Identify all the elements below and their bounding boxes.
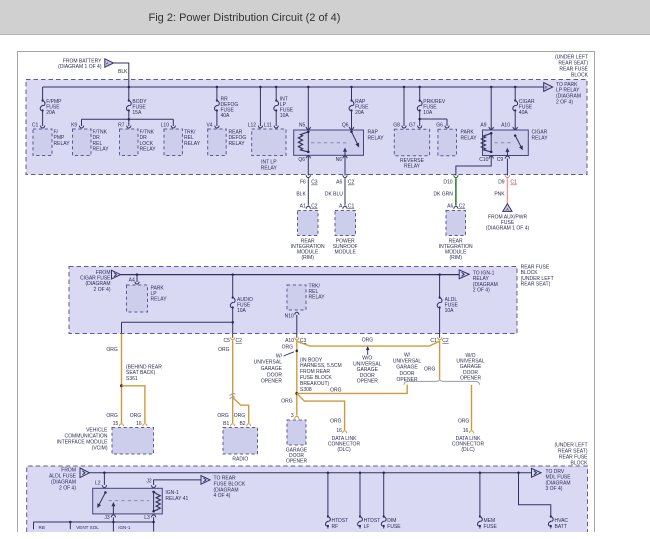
relay TRK/REL xyxy=(164,129,201,156)
svg-text:BLOCK: BLOCK xyxy=(571,72,589,78)
svg-text:(DLC): (DLC) xyxy=(337,447,351,453)
option ticks radio wire xyxy=(230,394,236,399)
svg-text:G8: G8 xyxy=(393,122,400,128)
splice S361 xyxy=(120,364,162,387)
svg-text:ORG: ORG xyxy=(362,337,374,343)
svg-text:(RIM): (RIM) xyxy=(449,255,462,261)
svg-text:(DLC): (DLC) xyxy=(461,447,475,453)
svg-text:RELAY: RELAY xyxy=(261,165,278,171)
svg-text:G7: G7 xyxy=(409,122,416,128)
pin C1 xyxy=(32,122,45,128)
svg-text:15: 15 xyxy=(113,421,119,427)
svg-text:10A: 10A xyxy=(237,308,247,314)
arrow to park lp relay xyxy=(544,82,581,105)
svg-text:OPENER: OPENER xyxy=(460,375,482,381)
svg-text:C2: C2 xyxy=(236,338,243,344)
svg-text:C5: C5 xyxy=(223,338,230,344)
wire sub-bus body fuse xyxy=(82,118,174,126)
pin V4 xyxy=(206,122,219,128)
from battery source arrow A xyxy=(58,58,113,70)
pins B1 B2 radio xyxy=(217,413,250,427)
svg-text:S308: S308 xyxy=(300,387,312,393)
bus band2 xyxy=(121,273,460,276)
wire PNK to aux/pwr fuse xyxy=(494,178,507,204)
svg-text:C9: C9 xyxy=(497,157,504,163)
svg-text:Q6: Q6 xyxy=(298,157,305,163)
svg-text:2 OF 4): 2 OF 4) xyxy=(556,99,573,105)
rear fuse block band 3 xyxy=(27,466,588,532)
svg-text:N5: N5 xyxy=(299,122,306,128)
svg-text:REAR SEAT): REAR SEAT) xyxy=(521,282,551,288)
svg-text:OPENER: OPENER xyxy=(396,377,418,383)
connector DATA LINK CONNECTOR DLC 1 xyxy=(328,436,361,453)
fuse DIM xyxy=(381,473,401,530)
fuse CIGAR 40A xyxy=(513,87,535,130)
wire int lp drop L12 xyxy=(259,87,261,126)
bus band1 main feed xyxy=(43,86,544,101)
label w/ universal garage door opener left with leader xyxy=(254,350,298,385)
svg-text:16: 16 xyxy=(463,428,469,434)
svg-text:(DIAGRAM 1 OF 4): (DIAGRAM 1 OF 4) xyxy=(486,225,530,231)
relay RAP switch xyxy=(311,131,359,147)
relay PARK LP xyxy=(127,285,168,312)
svg-text:OPENER: OPENER xyxy=(261,379,283,385)
wire ORG S361 to VCIM 16 xyxy=(122,386,145,423)
title bar xyxy=(0,0,650,35)
node C5 C2 xyxy=(223,337,242,344)
arrow from cigar fuse xyxy=(80,270,121,293)
svg-text:10A: 10A xyxy=(280,113,290,119)
svg-text:C1: C1 xyxy=(32,122,39,128)
svg-text:RELAY: RELAY xyxy=(404,164,421,170)
svg-text:40A: 40A xyxy=(519,110,529,116)
wire rap coil drop N5 xyxy=(307,87,309,130)
relay F/TNK DR REL xyxy=(73,129,110,156)
wire ORG S308 to garage door opener xyxy=(281,399,293,405)
wire ORG C5 to radio xyxy=(218,340,233,423)
pin L3 xyxy=(144,515,156,532)
svg-text:A6: A6 xyxy=(336,180,342,186)
svg-text:A10: A10 xyxy=(285,338,294,344)
svg-text:R7: R7 xyxy=(118,122,125,128)
relay REVERSE xyxy=(394,129,429,169)
fuse F/PMP 20A xyxy=(40,99,62,126)
svg-text:G6: G6 xyxy=(436,122,443,128)
pin K9 xyxy=(71,122,84,128)
svg-text:16: 16 xyxy=(336,428,342,434)
svg-text:DOOR: DOOR xyxy=(267,372,282,378)
fuse HTDST RF xyxy=(326,473,349,530)
svg-text:C2: C2 xyxy=(459,204,466,210)
svg-text:A9: A9 xyxy=(480,122,486,128)
node A10 C3 xyxy=(285,337,306,344)
svg-text:10A: 10A xyxy=(423,110,433,116)
fuse BODY 15A xyxy=(126,99,147,119)
pin N6 bottom xyxy=(336,149,348,164)
pin Q6 bottom xyxy=(298,156,310,163)
svg-text:S361: S361 xyxy=(126,376,138,382)
svg-text:A6: A6 xyxy=(447,204,453,210)
rear fuse block band 1 (under left rear seat) xyxy=(26,80,587,175)
svg-text:ORG: ORG xyxy=(234,413,246,419)
svg-text:(RIM): (RIM) xyxy=(301,255,314,261)
svg-text:IGN-1: IGN-1 xyxy=(118,525,131,530)
wire cigar coil drop A9 xyxy=(490,87,492,130)
svg-text:FUSE: FUSE xyxy=(387,524,401,530)
svg-text:C3: C3 xyxy=(311,180,318,186)
svg-text:Fig 2: Power Distribution Circ: Fig 2: Power Distribution Circuit (2 of … xyxy=(149,12,341,24)
label w/o universal garage door opener mid xyxy=(353,347,382,384)
svg-text:2 OF 4): 2 OF 4) xyxy=(473,288,490,294)
fuse PRK/REV 10A xyxy=(417,87,446,126)
arrow from aldl fuse xyxy=(49,467,89,491)
fuse RAP 20A xyxy=(349,87,369,130)
svg-text:C2: C2 xyxy=(348,180,355,186)
svg-text:ORG: ORG xyxy=(330,388,342,394)
svg-text:N10: N10 xyxy=(285,313,294,319)
module GARAGE DOOR OPENER xyxy=(286,420,308,465)
svg-text:N6: N6 xyxy=(336,157,343,163)
svg-text:40A: 40A xyxy=(221,113,231,119)
svg-text:FUSE: FUSE xyxy=(484,524,498,530)
svg-text:L11: L11 xyxy=(264,122,272,128)
svg-text:B: B xyxy=(545,86,548,90)
pin 16 DLC 2 xyxy=(463,428,474,434)
relay CIGAR switch xyxy=(495,134,523,149)
pin 16 DLC 1 xyxy=(330,418,347,434)
svg-text:J3: J3 xyxy=(104,515,110,521)
fuse MEM xyxy=(478,473,498,530)
pins 15 16 VCIM xyxy=(106,413,147,427)
node D9 C1 xyxy=(498,175,517,185)
svg-text:RELAY: RELAY xyxy=(368,135,385,141)
wire park relay branch xyxy=(418,118,447,126)
svg-text:10A: 10A xyxy=(445,308,455,314)
pin G8 xyxy=(393,122,406,128)
svg-text:(DIAGRAM 1 OF 4): (DIAGRAM 1 OF 4) xyxy=(58,64,102,70)
label rear fuse block right of band2 xyxy=(521,264,554,287)
wire ORG C1 to brace xyxy=(424,340,440,379)
svg-text:C1: C1 xyxy=(510,180,517,186)
svg-text:ORG: ORG xyxy=(458,418,470,424)
wire DK GRN to RIM xyxy=(433,178,465,209)
module RADIO xyxy=(223,428,258,463)
wire reverse relay drop G8 xyxy=(403,87,405,126)
svg-text:BLK: BLK xyxy=(296,192,306,198)
relay CIGAR U-box xyxy=(483,130,549,156)
svg-text:D9: D9 xyxy=(498,180,505,186)
svg-text:LF: LF xyxy=(364,524,370,530)
svg-text:C10: C10 xyxy=(479,157,488,163)
pin L12 xyxy=(248,122,263,128)
svg-text:L3: L3 xyxy=(144,515,150,521)
fuse INT LP 10A xyxy=(274,87,294,126)
splice S308 xyxy=(295,357,341,395)
svg-text:RB: RB xyxy=(39,525,45,530)
fuse HVAC BATT xyxy=(519,473,569,530)
module REAR INTEGRATION MODULE RIM 2 xyxy=(439,211,473,262)
svg-text:RELAY: RELAY xyxy=(229,141,246,147)
pin 3 garage door opener xyxy=(291,413,299,419)
svg-text:2 OF 4): 2 OF 4) xyxy=(94,287,111,293)
bottom rail vent sol / ign-1 xyxy=(34,521,155,530)
svg-text:K9: K9 xyxy=(71,122,77,128)
svg-text:20A: 20A xyxy=(355,110,365,116)
label rear fuse block top right xyxy=(555,54,589,78)
svg-text:OPENER: OPENER xyxy=(357,379,379,385)
pin A10 xyxy=(501,122,517,129)
module REAR INTEGRATION MODULE RIM 1 xyxy=(291,211,325,262)
wire cigar relay C10 to D10 xyxy=(456,156,491,176)
svg-text:A10: A10 xyxy=(501,122,510,128)
diagram frame xyxy=(18,52,595,533)
svg-text:ORG: ORG xyxy=(106,347,118,353)
svg-text:ORG: ORG xyxy=(218,347,230,353)
svg-text:L2: L2 xyxy=(95,480,101,486)
relay RAP coil xyxy=(298,131,309,154)
label w/o universal garage door opener right xyxy=(456,353,485,382)
pin G6 xyxy=(436,122,449,128)
label rear fuse block above band3 xyxy=(554,443,588,467)
svg-text:J2: J2 xyxy=(146,478,152,484)
svg-text:2 OF 4): 2 OF 4) xyxy=(59,486,76,492)
connector DATA LINK CONNECTOR DLC 2 xyxy=(452,436,485,453)
svg-text:W/: W/ xyxy=(404,353,411,359)
svg-text:RELAY: RELAY xyxy=(140,146,157,152)
svg-text:PNK: PNK xyxy=(494,192,505,198)
fuse HTDST LF xyxy=(358,473,381,530)
pin R7 xyxy=(118,122,131,128)
relay INT LP xyxy=(252,129,286,171)
svg-text:ORG: ORG xyxy=(282,344,294,350)
svg-text:ORG: ORG xyxy=(330,418,342,424)
svg-text:BATT: BATT xyxy=(555,524,567,530)
svg-text:(DIAGRAM: (DIAGRAM xyxy=(51,480,76,486)
svg-text:UNIVERSAL: UNIVERSAL xyxy=(254,360,283,366)
pin L10 xyxy=(161,122,176,128)
pin N10 xyxy=(285,312,299,338)
relay F/TNK DR LOCK xyxy=(120,129,157,156)
pin A4 xyxy=(129,275,140,284)
module VCIM xyxy=(57,427,154,454)
svg-text:RELAY: RELAY xyxy=(461,135,478,141)
bus band3 xyxy=(89,472,532,475)
pin Q6 top xyxy=(342,122,354,129)
relay IGN-1 switch xyxy=(98,491,149,507)
wire RIM feed BLK xyxy=(296,155,317,209)
relay TRK/REL band2 xyxy=(287,284,325,311)
wire cigar relay C9 to D9 xyxy=(506,159,508,176)
relay CIGAR coil xyxy=(481,132,492,153)
svg-text:C1: C1 xyxy=(348,204,355,210)
arrow to ign-1 relay xyxy=(459,270,498,294)
svg-text:ORG: ORG xyxy=(424,366,436,372)
svg-text:B1: B1 xyxy=(223,421,229,427)
svg-text:A1: A1 xyxy=(300,204,306,210)
arrow to rear fuse block xyxy=(201,476,246,500)
svg-text:MODULE: MODULE xyxy=(334,250,356,256)
pin J3 xyxy=(104,515,115,532)
arrow from aux/pwr fuse A xyxy=(486,204,530,232)
relay IGN-1 coil xyxy=(152,491,160,513)
svg-text:DOOR: DOOR xyxy=(400,371,415,377)
svg-text:OPENER: OPENER xyxy=(286,459,308,465)
svg-text:RELAY: RELAY xyxy=(54,141,71,147)
pin C10 xyxy=(479,156,493,163)
svg-text:VENT SOL: VENT SOL xyxy=(76,525,99,530)
svg-text:RELAY: RELAY xyxy=(93,146,110,152)
svg-text:C2: C2 xyxy=(311,204,318,210)
wire audio branch to vcim xyxy=(122,321,234,334)
pin A9 xyxy=(480,122,493,129)
svg-text:A4: A4 xyxy=(129,277,135,283)
pin N5 xyxy=(299,122,311,129)
svg-text:L10: L10 xyxy=(161,122,170,128)
svg-text:RELAY: RELAY xyxy=(309,295,326,301)
svg-text:L12: L12 xyxy=(248,122,257,128)
wire ORG branch to radio B2 xyxy=(233,398,249,424)
svg-text:RADIO: RADIO xyxy=(232,457,248,463)
svg-text:16: 16 xyxy=(136,421,142,427)
svg-text:RELAY: RELAY xyxy=(151,297,168,303)
svg-text:ORG: ORG xyxy=(281,399,293,405)
wire battery feed BLK xyxy=(114,63,129,101)
svg-text:FROM: FROM xyxy=(61,467,76,473)
fuse ALDL 10A xyxy=(437,275,458,338)
svg-text:BLK: BLK xyxy=(118,69,128,75)
svg-text:RELAY: RELAY xyxy=(184,141,201,147)
arrow to drv mdl fuse xyxy=(532,468,572,492)
wire ORG brace to DLC2 xyxy=(458,385,472,430)
node D10 xyxy=(443,175,458,185)
svg-text:20A: 20A xyxy=(46,110,56,116)
relay RAP U-box xyxy=(294,130,384,156)
rear fuse block band 2 xyxy=(69,267,517,334)
pin L11 xyxy=(264,122,278,128)
fuse RR DEFOG 40A xyxy=(215,87,239,126)
svg-text:3: 3 xyxy=(291,413,294,419)
svg-text:C2: C2 xyxy=(442,338,449,344)
svg-text:Q6: Q6 xyxy=(342,122,349,128)
svg-text:W/: W/ xyxy=(276,353,283,359)
wire ORG S308 to brace xyxy=(297,385,407,394)
wire ORG A10 to S308 xyxy=(282,340,297,415)
module POWER SUNROOF MODULE xyxy=(333,211,358,256)
fuse AUDIO 10A xyxy=(230,275,253,338)
option brace xyxy=(404,380,479,385)
relay IGN-1 41 U-box xyxy=(93,488,189,514)
svg-text:DK BLU: DK BLU xyxy=(325,192,343,198)
wire ORG S308 to DLC1 xyxy=(297,388,345,431)
wire ORG to S361 xyxy=(106,334,121,423)
svg-text:UNIVERSAL: UNIVERSAL xyxy=(393,359,422,365)
svg-text:4 OF 4): 4 OF 4) xyxy=(214,493,231,499)
pin G7 xyxy=(409,122,422,128)
option wire w/o garage door opener xyxy=(297,337,440,346)
relay F/PMP xyxy=(33,129,70,156)
relay REAR DEFOG xyxy=(208,129,247,156)
svg-text:D10: D10 xyxy=(443,180,452,186)
relay IGN-1 inner J3 arrow xyxy=(112,503,114,514)
svg-text:ORG: ORG xyxy=(130,413,142,419)
pin L2 xyxy=(95,473,107,488)
wire sunroof feed DK BLU xyxy=(325,155,355,209)
svg-text:B2: B2 xyxy=(239,421,245,427)
svg-text:GARAGE: GARAGE xyxy=(396,365,418,371)
svg-text:F6: F6 xyxy=(300,180,306,186)
svg-text:ALDL FUSE: ALDL FUSE xyxy=(49,473,77,479)
label w/ universal garage door opener right xyxy=(393,353,422,383)
svg-text:RELAY: RELAY xyxy=(532,135,549,141)
svg-text:V4: V4 xyxy=(206,122,212,128)
svg-text:ORG: ORG xyxy=(106,413,118,419)
pin C9 xyxy=(497,149,510,163)
svg-text:3 OF 4): 3 OF 4) xyxy=(546,486,563,492)
node C1 C2 xyxy=(430,337,449,344)
pin J2 xyxy=(146,478,201,487)
svg-text:(VCIM): (VCIM) xyxy=(92,445,108,451)
svg-text:15A: 15A xyxy=(132,110,142,116)
relay PARK xyxy=(438,129,477,156)
svg-text:RELAY 41: RELAY 41 xyxy=(165,496,188,502)
svg-text:ORG: ORG xyxy=(217,413,229,419)
svg-text:RF: RF xyxy=(332,524,339,530)
svg-text:DK GRN: DK GRN xyxy=(433,192,453,198)
svg-text:GARAGE: GARAGE xyxy=(261,366,283,372)
